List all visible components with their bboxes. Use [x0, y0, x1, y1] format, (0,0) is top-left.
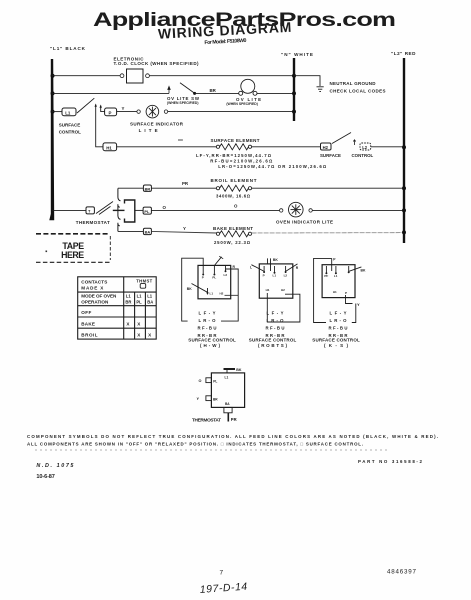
wire thermostat pole — [113, 209, 125, 211]
speck — [46, 251, 48, 253]
title block — [158, 19, 293, 49]
svg-text:For Model: F5108W0: For Model: F5108W0 — [204, 38, 246, 46]
wire lamp to N bus — [168, 111, 294, 113]
svg-text:X: X — [126, 322, 130, 327]
junction node on L2 bus, surface line — [402, 145, 406, 149]
resistor surface element — [220, 144, 249, 150]
svg-text:Y: Y — [183, 226, 186, 231]
wire ov lite line right — [257, 92, 294, 94]
svg-text:Y: Y — [357, 302, 360, 307]
ground symbol — [317, 87, 324, 92]
contact box BA — [143, 228, 151, 234]
stray dash mark — [178, 139, 183, 141]
svg-text:H1: H1 — [333, 290, 337, 294]
svg-text:CONTROL: CONTROL — [59, 129, 81, 134]
ROBTS wire loop — [267, 293, 300, 322]
ov lite sw blade — [180, 83, 195, 93]
surface control ROBTS box — [259, 264, 293, 298]
terminal circle clock left — [120, 74, 124, 78]
surface control H-W box — [198, 265, 231, 298]
svg-text:BAKE: BAKE — [81, 322, 95, 327]
H-W post PL — [213, 265, 215, 273]
svg-text:PART NO 316588-2: PART NO 316588-2 — [358, 459, 423, 464]
svg-text:BROIL: BROIL — [81, 333, 97, 338]
svg-text:LITE: LITE — [139, 128, 158, 133]
svg-text:MODE OF OVEN: MODE OF OVEN — [81, 294, 117, 299]
thermostat detail PR lead — [227, 413, 229, 422]
H-W BK blade to L1 — [192, 284, 208, 293]
svg-text:RF-BU: RF-BU — [198, 326, 217, 331]
wire P to lamp — [117, 111, 137, 113]
svg-text:BR: BR — [145, 187, 151, 192]
electronic T.O.D. clock box — [127, 69, 144, 83]
svg-text:LR-O: LR-O — [199, 318, 217, 323]
svg-text:CHECK LOCAL CODES: CHECK LOCAL CODES — [330, 89, 386, 94]
thermostat detail terminal Y — [206, 396, 212, 401]
svg-text:R: R — [233, 265, 236, 269]
svg-text:L1: L1 — [147, 293, 153, 298]
wire bracket to PL — [135, 209, 143, 211]
terminal tick L2 — [353, 140, 355, 145]
svg-text:O: O — [199, 379, 202, 383]
svg-text:RF-BU: RF-BU — [266, 326, 285, 331]
oven indicator lamp terminal right — [309, 209, 312, 212]
wire BA to bake element — [151, 231, 216, 233]
K-S post right with blade — [348, 266, 350, 273]
contact box PL — [143, 207, 151, 214]
svg-text:L1: L1 — [334, 274, 338, 278]
svg-text:HERE: HERE — [61, 250, 84, 260]
resistor bake element — [220, 231, 249, 237]
ov lite sw terminal arrow — [168, 87, 170, 94]
thermostat detail terminal O — [206, 378, 212, 383]
svg-text:(K-S): (K-S) — [324, 343, 349, 348]
K-S post left — [325, 266, 327, 273]
wire to L1 contact box — [52, 111, 62, 113]
svg-text:OFF: OFF — [81, 310, 91, 315]
svg-text:LF-Y: LF-Y — [199, 311, 216, 316]
oven indicator lamp terminal left — [280, 209, 283, 212]
thermostat bracket — [125, 200, 135, 222]
svg-text:N.D. 1075: N.D. 1075 — [36, 463, 74, 469]
K-S wire loop left — [314, 258, 332, 322]
svg-text:PL: PL — [144, 209, 150, 214]
svg-text:ALL COMPONENTS ARE SHOWN IN "O: ALL COMPONENTS ARE SHOWN IN "OFF" OR "RE… — [27, 442, 363, 447]
ROBTS post right with blade — [285, 266, 287, 273]
svg-text:BA: BA — [147, 300, 153, 305]
svg-text:SURFACE: SURFACE — [59, 122, 81, 127]
svg-text:O: O — [234, 204, 238, 209]
H-W wire loop left — [182, 258, 204, 321]
svg-text:PF: PF — [324, 274, 328, 278]
junction node on L1 bus, indicator line — [51, 110, 55, 114]
thermostat detail box — [211, 373, 244, 408]
svg-text:T.O.D. CLOCK (WHEN SPECIFIED): T.O.D. CLOCK (WHEN SPECIFIED) — [114, 61, 200, 66]
ROBTS post left with blade — [263, 266, 265, 273]
svg-text:(WHEN SPECIFIED): (WHEN SPECIFIED) — [167, 101, 198, 105]
svg-text:L: L — [250, 266, 252, 270]
K-S post middle — [335, 266, 337, 273]
bus L1 — [51, 59, 53, 219]
svg-text:197-D-14: 197-D-14 — [199, 581, 247, 596]
svg-text:BK: BK — [273, 258, 278, 262]
H-W blade — [215, 257, 222, 265]
svg-text:NEUTRAL GROUND: NEUTRAL GROUND — [330, 81, 377, 86]
svg-text:SURFACE INDICATOR: SURFACE INDICATOR — [130, 122, 184, 127]
svg-text:"N" WHITE: "N" WHITE — [281, 52, 313, 57]
svg-text:OPERATION: OPERATION — [81, 300, 109, 305]
wire bake drop — [118, 230, 143, 232]
svg-text:P: P — [345, 291, 347, 295]
contact box P — [105, 108, 117, 116]
junction node on L2 bus, broil line — [402, 186, 406, 190]
wire broil to L2 bus — [252, 187, 404, 189]
surface indicator lamp — [146, 105, 159, 118]
wire ov lite sw line left — [52, 92, 169, 94]
svg-text:BAKE ELEMENT: BAKE ELEMENT — [213, 226, 253, 231]
contact box BR — [143, 185, 151, 191]
surface element terminal circles — [216, 145, 219, 148]
svg-text:SURFACE CONTROL: SURFACE CONTROL — [312, 338, 360, 343]
wire H1 to surface element — [117, 146, 217, 148]
junction node on L2 bus, oven indicator line — [402, 208, 406, 212]
junction node on L1 bus, clock line — [51, 74, 55, 78]
junction node on L1 bus, ov lite sw line — [51, 91, 55, 95]
wire lamp to L2 bus — [312, 209, 404, 211]
wire drop to H1 with arrowhead — [96, 105, 103, 147]
svg-text:THMST: THMST — [136, 278, 152, 283]
svg-text:H1: H1 — [106, 145, 112, 150]
svg-text:7: 7 — [220, 570, 224, 577]
svg-text:BR: BR — [125, 300, 131, 305]
svg-text:LF-Y: LF-Y — [330, 311, 347, 316]
svg-text:SURFACE CONTROL: SURFACE CONTROL — [188, 338, 236, 343]
svg-text:PR: PR — [182, 181, 189, 186]
svg-text:LR-O: LR-O — [330, 318, 348, 323]
oven indicator lamp — [289, 202, 304, 217]
wire PL to oven indicator lamp — [151, 209, 279, 211]
svg-text:(WHEN SPECIFIED): (WHEN SPECIFIED) — [226, 102, 257, 106]
svg-text:L1: L1 — [273, 274, 277, 278]
wire broil riser — [118, 187, 143, 189]
svg-text:SURFACE ELEMENT: SURFACE ELEMENT — [211, 138, 260, 143]
svg-text:H2: H2 — [323, 145, 329, 150]
svg-text:OVEN INDICATOR LITE: OVEN INDICATOR LITE — [276, 220, 333, 225]
svg-text:THERMOSTAT: THERMOSTAT — [76, 220, 110, 225]
svg-text:4846397: 4846397 — [387, 569, 417, 576]
surface control switch blade — [332, 133, 351, 144]
svg-text:THERMOSTAT: THERMOSTAT — [192, 417, 221, 422]
svg-text:Y: Y — [197, 397, 200, 401]
junction node on L2 bus, bake line — [402, 230, 406, 234]
svg-text:L1: L1 — [126, 293, 132, 298]
thermostat detail BK lead — [226, 369, 228, 373]
contact box L1 — [62, 108, 76, 116]
svg-text:"L2" RED: "L2" RED — [391, 51, 416, 56]
svg-text:X: X — [148, 333, 152, 338]
svg-text:BK: BK — [361, 269, 366, 273]
svg-text:L2: L2 — [224, 273, 228, 277]
broil element terminal circles — [216, 187, 219, 190]
terminal circle lamp left — [137, 110, 140, 113]
svg-text:O: O — [163, 205, 167, 210]
wire clock line right — [149, 75, 294, 77]
bus L2 — [403, 58, 405, 243]
svg-text:BA: BA — [145, 230, 151, 235]
bake element terminal circles — [216, 232, 219, 235]
wire BR segment — [195, 92, 239, 94]
svg-text:L1: L1 — [65, 110, 71, 115]
svg-text:P: P — [333, 257, 336, 261]
svg-text:L1: L1 — [137, 293, 143, 298]
wire clock line left — [52, 75, 120, 77]
ROBTS BK wire top — [268, 258, 271, 271]
svg-text:P: P — [109, 110, 112, 115]
svg-text:LF-Y: LF-Y — [267, 311, 284, 316]
svg-text:H2: H2 — [220, 291, 224, 295]
wire bake to L2 bus — [252, 232, 404, 234]
wire drop to P with arrowhead — [101, 106, 105, 112]
svg-text:CONTROL: CONTROL — [352, 153, 374, 158]
svg-text:LF-Y,RR-BR=1250W,44.7Ω: LF-Y,RR-BR=1250W,44.7Ω — [196, 153, 272, 158]
svg-text:10-6-87: 10-6-87 — [36, 474, 55, 480]
wire to neutral ground — [294, 76, 320, 86]
svg-text:2500W, 22.3Ω: 2500W, 22.3Ω — [214, 240, 251, 245]
svg-text:"L1" BLACK: "L1" BLACK — [50, 46, 86, 51]
svg-text:H1: H1 — [266, 288, 270, 292]
svg-text:L2: L2 — [284, 274, 288, 278]
svg-text:X: X — [137, 322, 141, 327]
H-W L1 post — [207, 288, 209, 295]
H-W R wire — [221, 269, 238, 321]
svg-text:BA: BA — [225, 402, 230, 406]
junction node on N bus, clock line — [292, 74, 296, 78]
junction node on N bus, ov lite line — [292, 91, 296, 95]
K-S P wire top — [331, 258, 333, 271]
svg-text:L1: L1 — [225, 375, 229, 379]
wire L2 box to L2 bus — [371, 146, 404, 148]
terminal circle lamp right — [164, 110, 167, 113]
wire L1 bus to thermostat — [52, 209, 86, 211]
svg-text:CONTACTS: CONTACTS — [81, 279, 107, 284]
contact box H1 — [103, 143, 117, 151]
svg-text:(ROBTS): (ROBTS) — [258, 343, 288, 348]
svg-text:R: R — [296, 266, 299, 270]
tape here dashed box — [36, 234, 110, 262]
svg-text:PL: PL — [212, 276, 216, 280]
bus N — [293, 58, 295, 121]
H-W post P — [202, 265, 204, 273]
svg-text:LR-O=1250W,44.7Ω OR 2100W,26.6: LR-O=1250W,44.7Ω OR 2100W,26.6Ω — [218, 164, 327, 169]
svg-text:3400W, 16.6Ω: 3400W, 16.6Ω — [216, 194, 251, 199]
junction node on N bus, indicator line — [292, 110, 296, 114]
thermostat switch blade — [96, 202, 113, 215]
H-W post L2 — [225, 265, 227, 270]
svg-text:Y: Y — [122, 106, 125, 111]
svg-text:BK: BK — [187, 287, 192, 291]
svg-text:L1: L1 — [210, 291, 214, 295]
terminal circle clock right — [146, 74, 150, 78]
svg-text:SURFACE: SURFACE — [320, 153, 341, 158]
svg-text:RF-BU: RF-BU — [329, 326, 348, 331]
svg-text:BR: BR — [210, 88, 217, 93]
switch blade from L1 box — [77, 98, 94, 113]
surface control K-S box — [322, 265, 355, 298]
svg-text:BR: BR — [213, 398, 218, 402]
resistor broil element — [220, 185, 249, 191]
svg-text:P: P — [263, 274, 265, 278]
svg-text:MADE X: MADE X — [81, 285, 104, 290]
svg-text:SURFACE CONTROL: SURFACE CONTROL — [249, 338, 297, 343]
contact box H2 — [321, 143, 332, 150]
junction node ov lite sw — [193, 92, 196, 95]
svg-text:H2: H2 — [281, 288, 285, 292]
K-S wire loop right — [352, 304, 356, 323]
contact box L2 dashed — [360, 143, 371, 150]
thermostat contact bar — [118, 188, 121, 231]
wire surface element to H2 — [252, 146, 321, 148]
svg-text:PL: PL — [213, 380, 217, 384]
wire BR to broil element — [151, 187, 216, 189]
svg-text:L2: L2 — [362, 145, 368, 150]
contacts table frame — [78, 277, 157, 339]
svg-text:P: P — [202, 276, 204, 280]
svg-text:BK: BK — [236, 368, 242, 372]
ROBTS post middle — [274, 266, 276, 272]
contact box T1 — [86, 207, 94, 214]
dotted separator — [35, 449, 390, 451]
svg-text:PL: PL — [136, 300, 142, 305]
svg-text:COMPONENT SYMBOLS DO NOT REFLE: COMPONENT SYMBOLS DO NOT REFLECT TRUE CO… — [27, 434, 438, 439]
K-S Y wire — [346, 295, 353, 304]
ov lite lamp — [239, 79, 257, 95]
thermostat detail bottom tab — [224, 407, 232, 412]
svg-text:T: T — [88, 209, 91, 214]
svg-text:X: X — [137, 333, 141, 338]
svg-text:PR: PR — [231, 417, 237, 422]
svg-text:(H-W): (H-W) — [200, 343, 221, 348]
svg-text:BROIL ELEMENT: BROIL ELEMENT — [211, 178, 257, 183]
